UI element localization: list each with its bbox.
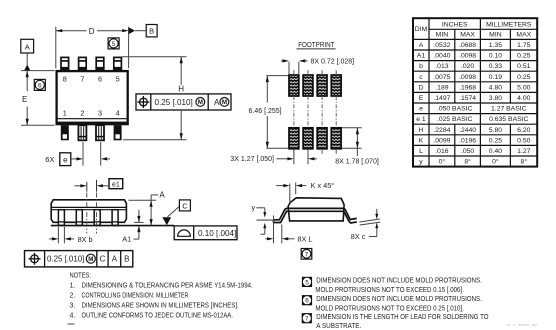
svg-text:6X: 6X: [45, 155, 54, 164]
svg-text:b: b: [419, 63, 423, 70]
svg-text:M: M: [88, 256, 93, 263]
svg-text:3: 3: [98, 109, 102, 118]
svg-text:8X L: 8X L: [297, 234, 312, 243]
svg-text:1.27: 1.27: [517, 148, 530, 155]
dimension 3X 1.27 [.050]: [230, 149, 317, 165]
svg-text:5.00: 5.00: [517, 84, 530, 91]
svg-text:.189: .189: [435, 84, 448, 91]
svg-text:4.80: 4.80: [489, 84, 502, 91]
svg-text:D: D: [89, 27, 95, 36]
svg-text:.050: .050: [461, 148, 474, 155]
faint document mark: [507, 324, 537, 326]
svg-text:8X c: 8X c: [351, 232, 366, 241]
svg-text:OUTLINE CONFORMS TO JEDEC OUTL: OUTLINE CONFORMS TO JEDEC OUTLINE MS-012…: [82, 313, 233, 320]
svg-text:0.25: 0.25: [517, 53, 530, 60]
dimension A: [129, 190, 166, 225]
svg-text:0.25: 0.25: [489, 137, 502, 144]
svg-text:4: 4: [116, 109, 120, 118]
feature control frame: position 0.25 [.010] M / A M: [136, 94, 231, 110]
pin numbers 1 2 3 4: [63, 109, 120, 118]
dimension D with extension lines: [56, 27, 146, 69]
note flag 7 (notes): [302, 313, 312, 323]
note flag 6: [34, 79, 45, 90]
svg-text:.1574: .1574: [459, 95, 476, 102]
end view body: [288, 198, 344, 221]
svg-text:0°: 0°: [492, 158, 499, 166]
svg-text:.1497: .1497: [433, 95, 450, 102]
top view pin 2 (bottom row): [78, 125, 86, 140]
dimension 6.46 [.255]: [249, 76, 289, 149]
svg-text:DIMENSIONING & TOLERANCING PER: DIMENSIONING & TOLERANCING PER ASME Y14.…: [82, 283, 253, 290]
footprint pad 5 (bottom row): [289, 128, 299, 149]
svg-text:5.80: 5.80: [489, 127, 502, 134]
side view body: [51, 200, 126, 223]
svg-text:MAX: MAX: [460, 32, 475, 39]
footprint pad 6 (bottom row): [303, 128, 313, 149]
svg-text:CONTROLLING DIMENSION: MILLIME: CONTROLLING DIMENSION: MILLIMETER: [82, 292, 189, 299]
note 4: [70, 313, 233, 320]
svg-text:5: 5: [305, 279, 309, 286]
svg-text:5: 5: [116, 74, 120, 83]
datum C symbol and box: [162, 200, 190, 225]
svg-text:INCHES: INCHES: [442, 22, 468, 29]
svg-text:8: 8: [63, 74, 67, 83]
seating plane line: [51, 225, 174, 227]
svg-text:.050 BASIC: .050 BASIC: [437, 106, 473, 113]
centerlines for e1: [87, 180, 97, 234]
svg-text:2: 2: [80, 109, 84, 118]
dimension 8X 1.78 [.070]: [335, 128, 379, 166]
svg-text:DIMENSION IS THE LENGTH OF LEA: DIMENSION IS THE LENGTH OF LEAD FOR SOLD…: [316, 314, 489, 321]
footprint pad 2 (top row): [303, 75, 313, 96]
note 5 text: [315, 278, 482, 295]
svg-text:DIMENSION DOES NOT INCLUDE MOL: DIMENSION DOES NOT INCLUDE MOLD PROTRUSI…: [316, 296, 482, 303]
flatness feature control frame 0.10 [.004]: [174, 226, 237, 240]
top view pin 4 (bottom row): [114, 125, 122, 140]
svg-text:7: 7: [305, 251, 309, 258]
svg-text:.2440: .2440: [459, 127, 476, 134]
svg-text:0.33: 0.33: [489, 63, 502, 70]
dimension K x 45deg: [276, 181, 334, 202]
dimension 8X 0.72 [.028]: [281, 59, 354, 74]
svg-text:DIMENSION DOES NOT INCLUDE MOL: DIMENSION DOES NOT INCLUDE MOLD PROTRUSI…: [316, 278, 482, 285]
dimension A1: [122, 210, 143, 244]
note 7 text: [316, 314, 489, 330]
svg-text:6.46 [.255]: 6.46 [.255]: [249, 108, 282, 115]
svg-text:y: y: [252, 203, 256, 212]
svg-text:0.50: 0.50: [517, 137, 530, 144]
svg-text:0.10 [.004]: 0.10 [.004]: [198, 229, 236, 238]
svg-text:8°: 8°: [521, 158, 528, 166]
svg-text:D: D: [419, 84, 424, 91]
end view gull-wing leads: [273, 208, 356, 223]
svg-text:3.80: 3.80: [489, 95, 502, 102]
top view pin 6 (top row): [96, 57, 104, 70]
dimension E with datum A triangle: [21, 53, 55, 125]
svg-text:E: E: [22, 95, 27, 104]
svg-text:8X 1.78 [.070]: 8X 1.78 [.070]: [335, 159, 379, 166]
svg-text:0.19: 0.19: [489, 74, 502, 81]
svg-text:0.25 [.010]: 0.25 [.010]: [155, 98, 193, 107]
svg-text:0.40: 0.40: [489, 148, 502, 155]
footprint pad 4 (top row): [331, 75, 341, 96]
svg-text:MOLD PROTRUSIONS NOT TO EXCEED: MOLD PROTRUSIONS NOT TO EXCEED 0.15 [.00…: [315, 287, 464, 294]
datum B box: [146, 25, 157, 37]
dimension 8X c: [351, 209, 381, 241]
top view pin 5 (top row): [114, 57, 122, 70]
svg-text:MIN: MIN: [489, 32, 502, 39]
note flag 7 (drawing): [301, 249, 312, 260]
svg-text:1: 1: [63, 109, 67, 118]
dimension y (lead angle): [252, 203, 273, 234]
footprint pad 1 (top row): [289, 75, 299, 96]
dimension 6X e: [45, 142, 110, 166]
svg-text:e1: e1: [112, 182, 120, 189]
svg-text:6: 6: [98, 74, 102, 83]
svg-text:.0099: .0099: [433, 137, 450, 144]
svg-text:A: A: [159, 190, 165, 199]
svg-text:.0196: .0196: [459, 137, 476, 144]
svg-text:5: 5: [112, 41, 116, 48]
note flag 5: [108, 38, 119, 49]
footprint pad centerlines: [294, 70, 336, 154]
svg-text:1.75: 1.75: [517, 42, 530, 49]
side view lead 3: [94, 210, 100, 226]
svg-text:6: 6: [38, 82, 42, 89]
svg-text:M: M: [198, 99, 203, 106]
svg-text:e 1: e 1: [416, 116, 426, 123]
svg-text:8X b: 8X b: [78, 235, 93, 244]
svg-text:L: L: [419, 148, 423, 155]
svg-text:6: 6: [305, 298, 309, 305]
dimension H: [122, 57, 187, 140]
note 2: [70, 292, 189, 299]
top view package body: [56, 71, 129, 125]
datum A box: [21, 39, 34, 53]
position feature control frame 0.25 [.010] M | C | A | B: [25, 251, 133, 267]
svg-text:.0075: .0075: [433, 74, 450, 81]
footprint title: [297, 40, 336, 49]
svg-text:7: 7: [305, 316, 309, 323]
dimension table: [413, 18, 537, 166]
svg-text:.025 BASIC: .025 BASIC: [437, 116, 473, 123]
svg-text:C: C: [100, 255, 106, 264]
side view lead 2: [76, 210, 82, 226]
svg-text:B: B: [124, 255, 129, 264]
svg-text:4.: 4.: [70, 313, 76, 320]
footprint pad 7 (bottom row): [317, 128, 327, 149]
svg-text:H: H: [419, 127, 424, 134]
side view lead 4: [112, 210, 118, 226]
note 6 text: [315, 296, 482, 312]
svg-text:H: H: [178, 84, 184, 93]
note 3: [70, 303, 239, 310]
svg-text:K x 45°: K x 45°: [311, 181, 335, 190]
top view pin 3 (bottom row): [96, 125, 104, 140]
svg-text:B: B: [149, 27, 154, 36]
svg-text:A: A: [25, 43, 30, 52]
dimension 8X b: [49, 227, 93, 244]
svg-text:NOTES:: NOTES:: [70, 273, 92, 280]
svg-text:4.00: 4.00: [517, 95, 530, 102]
svg-text:.016: .016: [435, 148, 448, 155]
svg-text:.0532: .0532: [433, 42, 450, 49]
svg-text:6.20: 6.20: [517, 127, 530, 134]
svg-text:DIMENSIONS ARE SHOWN IN MILLIM: DIMENSIONS ARE SHOWN IN MILLIMETERS [INC…: [82, 303, 239, 310]
svg-text:K: K: [419, 137, 424, 144]
svg-text:.013: .013: [435, 63, 448, 70]
dimension 8X L: [265, 216, 312, 244]
revision tick under note 4: [68, 323, 75, 325]
svg-text:A1: A1: [417, 53, 426, 60]
svg-text:2.: 2.: [70, 292, 76, 299]
svg-text:1.35: 1.35: [489, 42, 502, 49]
svg-text:8°: 8°: [464, 158, 471, 166]
svg-text:.0688: .0688: [459, 42, 476, 49]
svg-text:A SUBSTRATE.: A SUBSTRATE.: [316, 323, 361, 330]
svg-text:0.25 [.010]: 0.25 [.010]: [47, 255, 84, 264]
svg-text:.2284: .2284: [433, 127, 450, 134]
svg-text:0.10: 0.10: [489, 53, 502, 60]
svg-text:.0098: .0098: [459, 53, 476, 60]
top view pin 1 (bottom row): [61, 125, 69, 140]
svg-text:c: c: [419, 74, 423, 81]
note flag 6 (notes): [302, 295, 312, 305]
svg-text:.020: .020: [461, 63, 474, 70]
svg-text:0.51: 0.51: [517, 63, 530, 70]
svg-text:E: E: [419, 95, 424, 102]
top view pin 8 (top row): [61, 57, 69, 70]
svg-text:C: C: [182, 201, 188, 210]
svg-text:0°: 0°: [439, 158, 446, 166]
svg-text:A: A: [419, 42, 424, 49]
svg-text:7: 7: [80, 74, 84, 83]
note flag 5 (notes): [302, 277, 312, 287]
svg-text:A: A: [112, 255, 118, 264]
svg-text:8X 0.72 [.028]: 8X 0.72 [.028]: [311, 59, 355, 66]
svg-text:0.635 BASIC: 0.635 BASIC: [489, 116, 528, 123]
svg-text:.0040: .0040: [433, 53, 450, 60]
svg-text:3X 1.27 [.050]: 3X 1.27 [.050]: [230, 156, 274, 163]
svg-text:1.27 BASIC: 1.27 BASIC: [491, 106, 527, 113]
footprint pad 8 (bottom row): [331, 128, 341, 149]
dimension e1: [74, 179, 122, 189]
svg-text:1.: 1.: [70, 283, 76, 290]
svg-text:DIM: DIM: [415, 26, 428, 33]
footprint pad 3 (top row): [317, 75, 327, 96]
note 1: [70, 283, 253, 290]
svg-text:FOOTPRINT: FOOTPRINT: [298, 40, 335, 49]
svg-text:y: y: [419, 159, 423, 166]
top view pin 7 (top row): [79, 57, 87, 70]
svg-text:MOLD PROTRUSIONS NOT TO EXCEED: MOLD PROTRUSIONS NOT TO EXCEED 0.25 [.01…: [315, 305, 464, 312]
svg-text:0.25: 0.25: [517, 74, 530, 81]
svg-text:.0098: .0098: [459, 74, 476, 81]
svg-text:.1968: .1968: [459, 84, 476, 91]
svg-text:A1: A1: [122, 235, 131, 244]
svg-text:MIN: MIN: [436, 32, 449, 39]
svg-text:A: A: [214, 98, 220, 107]
svg-text:e: e: [419, 106, 423, 113]
pin numbers 8 7 6 5: [63, 74, 120, 83]
svg-text:MILLIMETERS: MILLIMETERS: [486, 22, 532, 29]
svg-text:3.: 3.: [70, 303, 76, 310]
svg-text:MAX: MAX: [516, 32, 531, 39]
svg-text:M: M: [222, 99, 227, 106]
svg-text:e: e: [63, 155, 68, 164]
side view lead 1: [58, 210, 64, 226]
